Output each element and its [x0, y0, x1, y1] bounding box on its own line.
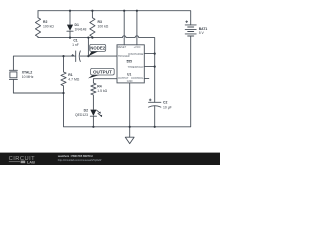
svg-text:RESET: RESET — [118, 45, 127, 49]
svg-text:D1: D1 — [75, 23, 79, 27]
svg-text:R3: R3 — [98, 20, 102, 24]
wire vcc pin — [136, 11, 138, 45]
svg-text:1N4148: 1N4148 — [75, 28, 87, 32]
flag OUTPUT — [88, 68, 114, 78]
capacitor C2 — [149, 99, 172, 127]
svg-text:LAB: LAB — [27, 159, 35, 164]
svg-text:100 kΩ: 100 kΩ — [43, 25, 54, 29]
svg-text:R2: R2 — [43, 20, 47, 24]
footer CircuitLab logo — [9, 156, 36, 165]
crystal XTAL2 — [9, 70, 33, 93]
svg-text:R1: R1 — [68, 73, 72, 77]
wire node2 drop — [87, 38, 89, 57]
svg-text:1 nF: 1 nF — [72, 43, 79, 47]
wire bottom-left and ground rail — [13, 36, 190, 127]
LED D2 — [75, 109, 102, 127]
wire gnd pin — [129, 83, 131, 127]
svg-text:R4: R4 — [97, 85, 101, 89]
svg-text:10 MHz: 10 MHz — [22, 75, 34, 79]
svg-text:+VCC: +VCC — [134, 45, 141, 49]
svg-text:C2: C2 — [163, 101, 167, 105]
svg-text:http://circuitlab.com/cmuusash: http://circuitlab.com/cmuusashr5p6u8/ — [58, 158, 102, 162]
resistor R1 — [61, 56, 80, 93]
wire discharge pin — [144, 53, 154, 55]
IC U1 555 — [117, 45, 144, 83]
wire control stub — [144, 78, 149, 80]
battery BAT1 — [185, 21, 207, 36]
wire mid rail with hops over IC pins — [38, 36, 155, 102]
svg-text:CONTROL: CONTROL — [131, 76, 144, 80]
resistor R2 — [35, 11, 54, 38]
svg-text:DISCHARGE: DISCHARGE — [128, 52, 143, 56]
svg-text:XTAL2: XTAL2 — [22, 70, 33, 74]
diode D1 — [67, 11, 87, 38]
svg-text:555: 555 — [127, 60, 133, 64]
resistor R3 — [90, 11, 109, 38]
resistor R4 — [91, 83, 108, 109]
wire output net — [93, 79, 117, 83]
svg-text:U1: U1 — [127, 72, 131, 76]
capacitor C1 — [72, 39, 81, 62]
svg-text:seanthom : PB20 555 SWITCH: seanthom : PB20 555 SWITCH — [58, 155, 93, 158]
svg-text:GND: GND — [127, 79, 133, 83]
svg-text:QED123: QED123 — [75, 113, 88, 117]
svg-text:100 kΩ: 100 kΩ — [98, 25, 109, 29]
svg-text:D2: D2 — [84, 109, 88, 113]
ground — [125, 127, 134, 144]
flag NODE2 — [88, 44, 105, 56]
junction dots — [62, 10, 155, 128]
wire reset pin — [123, 11, 125, 45]
footer bar — [0, 153, 220, 165]
wire top rail VCC — [38, 11, 191, 25]
svg-text:10 µF: 10 µF — [163, 105, 172, 109]
svg-text:NODE2: NODE2 — [90, 45, 105, 50]
wire threshold pin — [144, 66, 154, 68]
svg-text:1.5 kΩ: 1.5 kΩ — [97, 89, 107, 93]
svg-text:4.7 MΩ: 4.7 MΩ — [68, 78, 79, 82]
svg-text:THRESHOLD: THRESHOLD — [128, 65, 144, 69]
svg-text:5 V: 5 V — [199, 31, 205, 35]
svg-text:OUTPUT: OUTPUT — [93, 70, 112, 75]
wire C1 left / trigger net — [13, 56, 75, 70]
